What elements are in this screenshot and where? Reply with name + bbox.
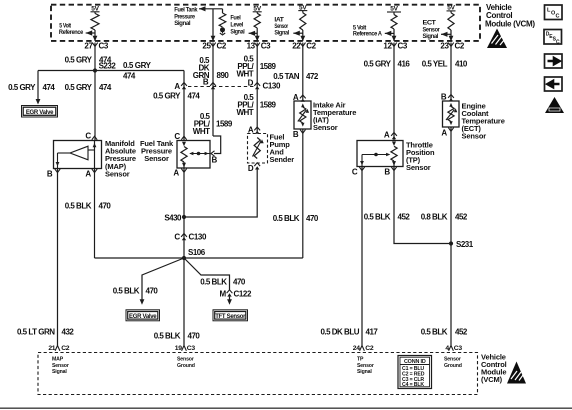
svg-text:Signal: Signal bbox=[357, 369, 372, 375]
svg-text:1589: 1589 bbox=[260, 101, 277, 110]
svg-text:Sensor: Sensor bbox=[313, 123, 338, 132]
svg-text:470: 470 bbox=[233, 278, 246, 287]
svg-text:C3: C3 bbox=[261, 42, 271, 51]
svg-text:470: 470 bbox=[99, 202, 112, 211]
svg-text:0.5 BLK: 0.5 BLK bbox=[65, 202, 92, 211]
svg-text:27: 27 bbox=[84, 42, 93, 51]
svg-text:890: 890 bbox=[217, 71, 230, 80]
svg-text:C2: C2 bbox=[61, 345, 70, 352]
svg-text:A: A bbox=[441, 129, 447, 138]
svg-text:S231: S231 bbox=[456, 240, 474, 249]
svg-text:Reference: Reference bbox=[59, 29, 84, 36]
svg-text:Signal: Signal bbox=[174, 20, 191, 27]
svg-text:A: A bbox=[85, 170, 91, 179]
svg-text:C130: C130 bbox=[189, 233, 207, 242]
svg-text:Ground: Ground bbox=[177, 363, 195, 369]
svg-text:1589: 1589 bbox=[260, 62, 277, 71]
svg-text:D: D bbox=[248, 79, 254, 88]
svg-text:Sensor: Sensor bbox=[444, 357, 461, 363]
svg-text:0.5 GRY: 0.5 GRY bbox=[153, 92, 181, 101]
svg-text:Sender: Sender bbox=[270, 155, 295, 164]
svg-text:Sensor: Sensor bbox=[406, 163, 431, 172]
svg-text:Module (VCM): Module (VCM) bbox=[485, 19, 535, 28]
svg-text:417: 417 bbox=[366, 328, 379, 337]
svg-text:0.5 LT GRN: 0.5 LT GRN bbox=[17, 328, 55, 337]
svg-text:0.5 BLK: 0.5 BLK bbox=[154, 332, 181, 341]
svg-text:12: 12 bbox=[383, 42, 392, 51]
svg-text:C: C bbox=[174, 233, 180, 242]
svg-text:C3: C3 bbox=[398, 42, 408, 51]
svg-text:A: A bbox=[173, 169, 179, 178]
svg-text:C: C bbox=[85, 132, 91, 141]
svg-text:M: M bbox=[220, 290, 227, 299]
svg-text:Sensor: Sensor bbox=[52, 363, 69, 369]
svg-text:Sensor: Sensor bbox=[462, 132, 487, 141]
svg-text:C3: C3 bbox=[187, 345, 196, 352]
svg-text:C: C bbox=[174, 132, 180, 141]
svg-text:C: C bbox=[556, 39, 560, 45]
svg-text:452: 452 bbox=[455, 213, 468, 222]
svg-text:21: 21 bbox=[48, 345, 55, 352]
svg-text:MAP: MAP bbox=[52, 357, 64, 363]
svg-text:EGR Valve: EGR Valve bbox=[26, 110, 54, 116]
svg-text:0.5 GRY: 0.5 GRY bbox=[65, 83, 93, 92]
svg-text:0.5 DK BLU: 0.5 DK BLU bbox=[320, 328, 359, 337]
svg-text:452: 452 bbox=[455, 328, 468, 337]
svg-text:13: 13 bbox=[247, 42, 256, 51]
svg-text:23: 23 bbox=[440, 42, 449, 51]
svg-text:Ground: Ground bbox=[444, 363, 462, 369]
svg-text:C2: C2 bbox=[365, 345, 374, 352]
svg-text:B: B bbox=[384, 168, 390, 177]
svg-text:(VCM): (VCM) bbox=[481, 375, 503, 384]
svg-text:A: A bbox=[174, 82, 180, 91]
svg-text:TP: TP bbox=[357, 357, 364, 363]
svg-text:0.5 TAN: 0.5 TAN bbox=[273, 72, 299, 81]
svg-text:22: 22 bbox=[292, 42, 301, 51]
svg-text:Sensor: Sensor bbox=[144, 154, 169, 163]
svg-text:B: B bbox=[441, 93, 447, 102]
svg-text:19: 19 bbox=[175, 345, 182, 352]
svg-text:0.5 YEL: 0.5 YEL bbox=[422, 60, 448, 69]
svg-text:410: 410 bbox=[455, 60, 468, 69]
svg-text:C: C bbox=[352, 168, 358, 177]
svg-text:S106: S106 bbox=[188, 248, 206, 257]
svg-text:B: B bbox=[47, 170, 53, 179]
svg-text:Sensor: Sensor bbox=[177, 357, 194, 363]
svg-text:Signal: Signal bbox=[52, 369, 67, 375]
svg-text:S430: S430 bbox=[164, 214, 182, 223]
svg-text:1589: 1589 bbox=[216, 120, 233, 129]
svg-text:WHT: WHT bbox=[193, 127, 210, 136]
svg-text:B: B bbox=[212, 156, 218, 165]
svg-text:0.5 GRY: 0.5 GRY bbox=[65, 56, 93, 65]
svg-text:S232: S232 bbox=[99, 62, 117, 71]
svg-text:TFT Sensor: TFT Sensor bbox=[215, 314, 246, 320]
svg-text:0.5 GRY: 0.5 GRY bbox=[8, 83, 36, 92]
svg-text:24: 24 bbox=[353, 345, 360, 352]
svg-text:474: 474 bbox=[43, 83, 56, 92]
svg-text:C4 = BLK: C4 = BLK bbox=[402, 382, 424, 388]
svg-text:C2: C2 bbox=[306, 42, 316, 51]
svg-text:470: 470 bbox=[306, 214, 319, 223]
svg-text:0.5 GRY: 0.5 GRY bbox=[123, 61, 152, 70]
svg-text:WHT: WHT bbox=[236, 108, 253, 117]
svg-text:C3: C3 bbox=[99, 42, 109, 51]
svg-text:Level: Level bbox=[230, 22, 243, 29]
svg-text:C2: C2 bbox=[455, 42, 465, 51]
svg-text:25: 25 bbox=[202, 42, 211, 51]
svg-text:474: 474 bbox=[188, 92, 201, 101]
svg-text:0.5 BLK: 0.5 BLK bbox=[421, 328, 448, 337]
svg-text:474: 474 bbox=[123, 72, 136, 81]
svg-text:C122: C122 bbox=[234, 290, 252, 299]
svg-text:0.5 BLK: 0.5 BLK bbox=[364, 213, 391, 222]
svg-text:416: 416 bbox=[398, 60, 411, 69]
svg-text:0.5 GRY: 0.5 GRY bbox=[364, 60, 392, 69]
svg-text:Sensor: Sensor bbox=[357, 363, 374, 369]
svg-text:B: B bbox=[293, 130, 299, 139]
svg-text:B: B bbox=[203, 78, 209, 87]
svg-text:0.5 BLK: 0.5 BLK bbox=[113, 287, 140, 296]
svg-text:C2: C2 bbox=[217, 42, 227, 51]
svg-text:Signal: Signal bbox=[230, 29, 245, 36]
svg-text:474: 474 bbox=[99, 83, 112, 92]
svg-text:432: 432 bbox=[62, 328, 75, 337]
svg-text:470: 470 bbox=[188, 332, 201, 341]
svg-text:C3: C3 bbox=[454, 345, 463, 352]
svg-text:470: 470 bbox=[146, 287, 159, 296]
svg-text:Sensor: Sensor bbox=[105, 169, 130, 178]
svg-text:0.8 BLK: 0.8 BLK bbox=[421, 213, 448, 222]
svg-text:Signal: Signal bbox=[423, 33, 439, 40]
svg-text:C130: C130 bbox=[263, 82, 281, 91]
svg-text:4: 4 bbox=[445, 345, 449, 352]
svg-text:Fuel: Fuel bbox=[230, 15, 241, 22]
svg-text:Signal: Signal bbox=[274, 30, 289, 37]
svg-text:0.5 BLK: 0.5 BLK bbox=[200, 278, 227, 287]
svg-text:C: C bbox=[556, 14, 560, 20]
svg-text:0.5 BLK: 0.5 BLK bbox=[273, 214, 300, 223]
svg-text:472: 472 bbox=[306, 72, 319, 81]
svg-text:EGR Valve: EGR Valve bbox=[129, 314, 157, 320]
svg-text:A: A bbox=[384, 131, 390, 140]
svg-text:WHT: WHT bbox=[236, 70, 253, 79]
svg-text:Reference A: Reference A bbox=[353, 31, 383, 38]
svg-text:452: 452 bbox=[398, 213, 411, 222]
svg-text:D: D bbox=[248, 164, 254, 173]
svg-text:CONN ID: CONN ID bbox=[404, 359, 426, 365]
